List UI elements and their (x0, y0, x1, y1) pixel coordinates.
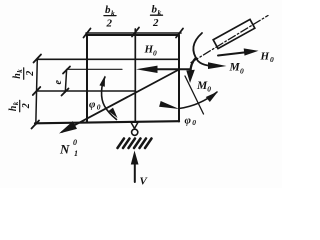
horizontal line C (mid axis) (37, 90, 136, 92)
moment M0 lower curved arrow (186, 58, 196, 83)
ground hatching (118, 139, 152, 149)
svg-text:H: H (260, 51, 270, 63)
dimension line e (62, 67, 71, 96)
svg-text:φ: φ (89, 99, 96, 111)
svg-text:0: 0 (240, 67, 244, 76)
svg-text:2: 2 (152, 17, 159, 29)
label N1^0 (59, 138, 78, 158)
inclined bar (rigel) (213, 19, 255, 48)
dimension line h_k left (32, 55, 42, 129)
label H0 left (144, 44, 158, 58)
svg-text:H: H (144, 44, 154, 56)
label e (rotated) (53, 80, 64, 85)
label h_k/2 upper (rotated) (12, 68, 36, 80)
svg-text:2: 2 (106, 18, 113, 30)
label b_k/2 right (151, 4, 163, 30)
svg-text:2: 2 (21, 103, 32, 109)
svg-text:2: 2 (25, 71, 36, 77)
svg-text:e: e (53, 80, 64, 85)
svg-text:0: 0 (97, 103, 101, 112)
horizontal line A (top of h_k zone) (37, 58, 180, 60)
label M0 lower (196, 80, 211, 94)
force H0 left arrow (136, 66, 190, 73)
svg-text:k: k (16, 69, 24, 73)
svg-text:N: N (59, 142, 70, 157)
bottom edge extended left (35, 121, 179, 123)
svg-text:M: M (229, 62, 241, 74)
svg-text:M: M (196, 80, 208, 92)
label V (140, 176, 149, 188)
label phi0 right (185, 115, 197, 128)
force N diagonal line (59, 70, 179, 134)
line B : H0 line of action (67, 68, 123, 70)
bar dash-dot centerline (191, 16, 268, 63)
support triangle (131, 122, 138, 128)
support circle (132, 129, 138, 135)
svg-text:φ: φ (185, 115, 192, 127)
moment M0 upper curved arrow (193, 33, 226, 69)
svg-text:0: 0 (73, 138, 77, 147)
svg-text:V: V (140, 176, 149, 188)
label h_k/2 lower (rotated) (8, 100, 32, 112)
label H0 right (260, 51, 275, 65)
joint square outline (87, 35, 179, 122)
svg-text:0: 0 (207, 85, 211, 94)
angle arc phi0 right (159, 92, 218, 110)
svg-text:0: 0 (153, 49, 157, 58)
angle arc phi0 left (99, 76, 117, 120)
middle vertical axis (134, 29, 136, 122)
label b_k/2 left (104, 4, 116, 30)
steep auxiliary line (185, 76, 204, 114)
svg-text:k: k (12, 101, 20, 105)
label M0 upper (229, 62, 245, 76)
dimension line b_k top (84, 28, 184, 38)
svg-text:1: 1 (74, 149, 78, 158)
svg-text:0: 0 (270, 55, 274, 64)
reaction V arrow (131, 151, 139, 183)
svg-text:0: 0 (192, 118, 196, 127)
label phi0 left (89, 99, 101, 112)
force H0 right arrow (218, 48, 259, 55)
